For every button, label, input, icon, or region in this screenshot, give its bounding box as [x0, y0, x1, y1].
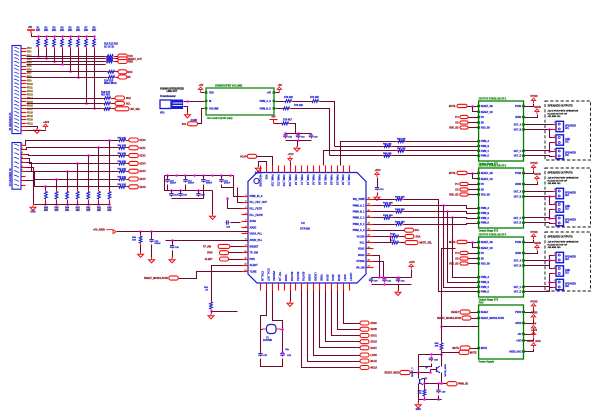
wire — [286, 140, 312, 142]
wire — [257, 157, 273, 166]
svg-text:R81 22R: R81 22R — [383, 143, 392, 145]
power +5V bar — [270, 117, 278, 124]
svg-text:10K: 10K — [107, 210, 112, 212]
svg-text:Output Stage ST3: Output Stage ST3 — [479, 299, 499, 302]
MCU pin 35 — [272, 166, 274, 173]
junction — [69, 70, 72, 73]
MCU pin 27 — [343, 284, 345, 291]
svg-text:PVDD: PVDD — [530, 230, 537, 234]
junction — [437, 398, 440, 401]
resistor R104 — [395, 223, 405, 226]
svg-text:100nF: 100nF — [154, 243, 161, 245]
svg-text:10K: 10K — [76, 210, 81, 212]
svg-text:100nF: 100nF — [224, 183, 231, 185]
port VDD_SD — [460, 262, 468, 265]
wire bus PWM — [341, 142, 479, 166]
MCU pin 7 — [242, 233, 249, 235]
svg-text:R100 22R: R100 22R — [395, 197, 405, 199]
MCU pin 13 — [242, 271, 249, 273]
speaker note box 2 — [545, 168, 591, 227]
pin PWM_D — [477, 222, 480, 224]
svg-text:PVDD: PVDD — [530, 94, 537, 98]
MCU pin 4 — [242, 214, 249, 216]
svg-text:LRCKR: LRCKR — [314, 272, 317, 281]
ground — [34, 128, 40, 133]
wire — [260, 330, 262, 353]
svg-text:PWM_B_O: PWM_B_O — [260, 108, 272, 110]
svg-text:PWM_D_1: PWM_D_1 — [353, 223, 365, 226]
svg-text:R53 10K: R53 10K — [118, 161, 127, 163]
wire OUT_B — [525, 129, 553, 131]
wire — [374, 256, 380, 278]
svg-text:PD12: PD12 — [27, 91, 34, 93]
wire — [27, 127, 38, 129]
MCU pin 12 — [242, 265, 249, 267]
wire — [27, 58, 105, 60]
capacitor C32 — [396, 278, 400, 283]
junction — [548, 259, 551, 262]
svg-text:XTAL_IN: XTAL_IN — [260, 271, 263, 281]
wire — [418, 373, 420, 379]
svg-text:STA328: STA328 — [300, 227, 310, 231]
svg-text:AVDD_PLL: AVDD_PLL — [250, 239, 263, 242]
wire — [424, 398, 426, 400]
svg-text:10K: 10K — [36, 30, 41, 32]
svg-text:BCLK: BCLK — [371, 361, 378, 363]
wire OUT_D — [525, 156, 553, 157]
svg-text:R51 10K: R51 10K — [118, 145, 127, 147]
port RXD — [118, 60, 128, 64]
resistor R44 — [118, 170, 128, 173]
MCU pin 21 — [307, 284, 309, 291]
svg-text:MUTE: MUTE — [452, 348, 459, 350]
wire — [98, 202, 100, 205]
pin OUT_B — [522, 264, 525, 266]
junction — [170, 189, 173, 192]
svg-text:AVDD: AVDD — [534, 172, 541, 176]
wire — [442, 301, 479, 327]
wire — [550, 209, 553, 211]
wire — [238, 188, 242, 203]
resistor R4 — [61, 37, 64, 50]
resistor R66 — [45, 190, 48, 202]
wire — [184, 107, 188, 113]
svg-text:RXD: RXD — [128, 62, 133, 64]
svg-text:+3V3: +3V3 — [516, 341, 522, 343]
junction — [45, 35, 48, 38]
junction — [69, 35, 72, 38]
wire — [281, 329, 283, 331]
svg-text:VDD_SD: VDD_SD — [449, 128, 459, 130]
capacitor C14 — [169, 193, 173, 197]
wire — [229, 259, 242, 261]
wire — [471, 348, 478, 350]
capacitor C36 — [436, 389, 440, 394]
port KEY0 — [129, 138, 139, 142]
speaker note box 1 — [545, 101, 591, 160]
resistor R2 — [45, 37, 48, 50]
svg-text:SDO1: SDO1 — [331, 274, 334, 281]
svg-text:J21 AND J31: J21 AND J31 — [548, 115, 562, 118]
pin — [205, 107, 208, 109]
resistor R101 — [383, 204, 393, 207]
svg-text:PVDD: PVDD — [515, 106, 522, 108]
capacitor C10 — [165, 179, 169, 183]
svg-text:R80 22R: R80 22R — [397, 139, 406, 141]
junction — [202, 174, 205, 177]
resistor R91 — [210, 301, 213, 312]
wire — [113, 103, 115, 105]
svg-text:1K 1K 1K: 1K 1K 1K — [104, 46, 115, 48]
svg-text:PWM_C: PWM_C — [481, 287, 490, 289]
pin RESET_CD — [477, 178, 480, 180]
resistor R1 — [37, 37, 40, 50]
wire rail — [165, 176, 213, 191]
MCU pin 38 — [290, 166, 292, 173]
pin VDD_SD — [477, 126, 480, 128]
svg-text:PWM_SD: PWM_SD — [458, 384, 469, 386]
svg-text:PWM_C: PWM_C — [481, 218, 490, 220]
junction — [61, 35, 64, 38]
wire — [45, 202, 47, 205]
junction — [166, 174, 169, 177]
svg-text:R56 10K: R56 10K — [118, 184, 127, 186]
svg-text:OUT_D: OUT_D — [514, 223, 522, 225]
wire — [550, 142, 553, 144]
svg-text:PWM_A2: PWM_A2 — [306, 175, 309, 186]
wire — [438, 396, 440, 400]
svg-text:10: 10 — [244, 251, 246, 253]
wire — [442, 249, 456, 301]
wire — [469, 189, 478, 191]
power AVDD_DAC — [527, 339, 541, 348]
svg-text:43: 43 — [368, 228, 370, 231]
svg-text:MUTE: MUTE — [449, 106, 456, 108]
wire — [469, 263, 478, 265]
svg-text:ALERT: ALERT — [250, 264, 259, 267]
svg-text:SPEAKER: SPEAKER — [565, 255, 576, 258]
junction — [184, 174, 187, 177]
svg-text:AGND: AGND — [255, 172, 262, 175]
wire PWM to amp2 — [405, 212, 479, 214]
wire — [419, 364, 432, 367]
wire — [469, 122, 478, 124]
wire — [166, 240, 249, 242]
svg-text:MUTE_MOD: MUTE_MOD — [445, 364, 447, 377]
svg-text:SDO0: SDO0 — [325, 274, 328, 281]
wire — [201, 92, 205, 94]
svg-text:VCAP: VCAP — [240, 155, 247, 158]
pin +5V — [522, 333, 525, 335]
power PVDD — [530, 300, 537, 309]
svg-text:MUTE: MUTE — [449, 242, 456, 244]
wire PWM to amp3 — [444, 206, 479, 288]
capacitor C28 — [280, 353, 284, 357]
svg-text:PWM_A: PWM_A — [481, 276, 490, 279]
svg-text:Output Stage ST2: Output Stage ST2 — [479, 230, 499, 233]
pin — [205, 91, 208, 93]
connector J21 — [553, 121, 564, 131]
svg-text:PLACE ON TOP OF: PLACE ON TOP OF — [548, 112, 568, 115]
wire — [411, 270, 413, 278]
svg-text:PWM_B1: PWM_B1 — [324, 175, 327, 186]
speaker note box 3 — [545, 232, 591, 291]
junction — [471, 105, 474, 108]
connector J23 — [553, 252, 564, 262]
wire — [473, 107, 478, 112]
svg-text:MUTE_SEL: MUTE_SEL — [420, 243, 433, 245]
svg-text:SD: SD — [481, 190, 485, 192]
svg-text:2: 2 — [245, 201, 246, 203]
svg-text:TLINE: TLINE — [250, 271, 257, 274]
port MUTE_SEL — [405, 241, 418, 245]
svg-text:R83 22R: R83 22R — [383, 153, 392, 155]
svg-text:100nF: 100nF — [188, 183, 195, 185]
svg-text:VSS: VSS — [265, 175, 268, 180]
port LRCK — [360, 353, 369, 357]
junction — [55, 178, 58, 181]
svg-text:LRCK: LRCK — [371, 355, 378, 357]
resistor R32 — [103, 107, 113, 110]
svg-text:+5V: +5V — [532, 322, 537, 326]
pin RESET — [477, 311, 480, 313]
capacitor C22 — [296, 134, 300, 139]
wire — [261, 359, 283, 367]
port TP_SW — [218, 244, 230, 248]
svg-text:RESET_AB: RESET_AB — [481, 172, 493, 175]
pin RESET_CD — [477, 111, 480, 113]
wire OUT_C — [525, 218, 553, 219]
resistor R12 — [105, 60, 116, 63]
wire — [273, 291, 283, 353]
junction — [471, 241, 474, 244]
svg-text:Power Supply: Power Supply — [479, 362, 495, 364]
wire — [468, 242, 478, 244]
ground — [374, 195, 380, 200]
wire — [26, 163, 118, 172]
svg-text:PU: PU — [455, 117, 459, 119]
wire — [332, 291, 361, 336]
svg-text:6: 6 — [245, 226, 246, 228]
port SCK — [118, 70, 127, 74]
wire — [140, 232, 142, 235]
ground — [208, 314, 214, 319]
svg-text:42: 42 — [368, 234, 370, 237]
svg-text:PU: PU — [481, 184, 485, 186]
svg-text:PWM_A: PWM_A — [481, 140, 490, 143]
port MUTE — [457, 104, 467, 107]
MCU pin 37 — [367, 267, 374, 269]
svg-text:24.576M: 24.576M — [263, 339, 272, 342]
junction — [77, 35, 80, 38]
wire — [94, 50, 96, 109]
resistor R7 — [85, 37, 88, 50]
svg-text:VDD3: VDD3 — [284, 274, 287, 281]
wire — [374, 205, 383, 207]
svg-text:10K: 10K — [65, 210, 70, 212]
port VDD_SD — [460, 126, 468, 129]
svg-text:+5V: +5V — [517, 334, 522, 336]
svg-text:MUTE: MUTE — [481, 348, 488, 350]
svg-text:VDD_SD: VDD_SD — [449, 264, 459, 266]
svg-text:RESET_AB: RESET_AB — [481, 105, 493, 108]
svg-text:PWM_B: PWM_B — [481, 213, 490, 215]
power +5V — [531, 322, 536, 331]
capacitor C18 — [226, 220, 230, 224]
wire — [418, 400, 420, 403]
wire — [374, 230, 405, 232]
wire — [525, 182, 538, 185]
pin OUT_C — [522, 286, 525, 288]
wire PWM to amp3 — [405, 200, 479, 292]
svg-text:SDA2: SDA2 — [358, 254, 365, 257]
ground — [395, 290, 401, 295]
MCU pin 37 — [284, 166, 286, 173]
junction — [548, 150, 551, 153]
wire — [77, 202, 79, 205]
svg-text:OUT_A: OUT_A — [514, 191, 522, 194]
pin RESET_CD — [477, 247, 480, 249]
connector J12 — [553, 202, 564, 212]
junction — [175, 174, 178, 177]
wire — [441, 355, 443, 367]
wire — [78, 50, 80, 78]
svg-text:PWM_B2: PWM_B2 — [329, 175, 332, 186]
svg-text:INT_SEL: INT_SEL — [131, 109, 141, 111]
svg-text:+5V: +5V — [199, 83, 204, 87]
svg-text:VDD_SD: VDD_SD — [481, 128, 491, 130]
wire — [234, 176, 242, 197]
wire — [442, 352, 460, 354]
pin OUT_B — [522, 195, 525, 197]
svg-text:+3V3: +3V3 — [531, 328, 538, 332]
capacitor C19 — [375, 187, 379, 191]
MCU pin 41 — [367, 242, 374, 244]
svg-text:R11 R12 R13: R11 R12 R13 — [104, 44, 119, 46]
wire — [27, 77, 107, 79]
wire — [473, 174, 478, 179]
MCU pin 36 — [278, 166, 280, 173]
pin — [273, 91, 276, 93]
svg-text:46: 46 — [368, 209, 370, 212]
ground — [415, 403, 421, 412]
svg-text:10K: 10K — [44, 210, 49, 212]
svg-text:VCC33: VCC33 — [357, 235, 366, 238]
MCU pin 41 — [307, 166, 309, 173]
wire pull-up rail — [32, 34, 95, 37]
svg-text:SDA1: SDA1 — [358, 248, 365, 251]
svg-text:PWM_B0: PWM_B0 — [318, 175, 321, 186]
wire OUT_D — [525, 223, 553, 224]
svg-text:+5V_AVDD: +5V_AVDD — [93, 229, 105, 232]
junction — [423, 382, 426, 385]
MCU pin 5 — [242, 221, 249, 223]
resistor R46 — [118, 185, 128, 188]
svg-text:PWM_C0: PWM_C0 — [341, 175, 344, 186]
svg-text:R70 22R: R70 22R — [284, 97, 293, 99]
junction — [61, 63, 64, 66]
resistor R81 — [383, 145, 393, 148]
wire — [549, 274, 551, 283]
MCU pin 39 — [295, 166, 297, 173]
svg-text:VOL: VOL — [182, 124, 187, 126]
svg-text:KEY1: KEY1 — [140, 148, 147, 150]
capacitor C35 — [429, 357, 433, 362]
svg-text:+1V2: +1V2 — [287, 152, 294, 156]
svg-text:47: 47 — [368, 203, 370, 206]
wire — [56, 202, 58, 205]
MCU pin 22 — [313, 284, 315, 291]
svg-text:KEY5: KEY5 — [140, 179, 147, 181]
wire — [344, 291, 361, 324]
resistor R31 — [103, 102, 113, 105]
wire — [26, 159, 118, 164]
svg-text:R101 22R: R101 22R — [383, 203, 393, 205]
svg-text:PWM_A_2: PWM_A_2 — [353, 229, 365, 232]
capacitor C12 — [201, 179, 205, 183]
svg-text:KEY2: KEY2 — [140, 156, 147, 158]
wire — [128, 147, 129, 149]
resistor R8 — [93, 37, 96, 50]
svg-text:R82 22R: R82 22R — [397, 148, 406, 150]
wire — [128, 179, 129, 181]
junction — [45, 57, 48, 60]
svg-text:PLACE ON TOP OF: PLACE ON TOP OF — [548, 243, 568, 246]
port KEY1 — [129, 146, 139, 150]
svg-text:100nF: 100nF — [206, 183, 213, 185]
svg-text:PD21: PD21 — [27, 123, 34, 125]
MCU pin 48 — [367, 199, 374, 201]
resistor R72 — [282, 107, 292, 110]
ground — [149, 258, 155, 263]
wire — [27, 98, 103, 100]
connector J11 — [553, 135, 564, 145]
svg-text:PU: PU — [481, 253, 485, 255]
MCU pin 8 — [242, 240, 249, 242]
pin RESET_MODULATOR — [477, 317, 480, 319]
power PVDD — [530, 230, 537, 239]
svg-text:R52 10K: R52 10K — [118, 153, 127, 155]
ground — [210, 214, 216, 219]
wire — [314, 291, 361, 356]
junction — [97, 203, 100, 206]
svg-text:R75 4K7: R75 4K7 — [283, 119, 293, 122]
svg-text:+5V: +5V — [271, 117, 276, 119]
wire — [468, 173, 478, 175]
svg-text:SDO2: SDO2 — [371, 342, 378, 344]
junction — [55, 203, 58, 206]
MCU pin 26 — [337, 284, 339, 291]
port MUTE — [460, 346, 470, 350]
pin PVDD — [522, 105, 525, 107]
MCU pin 44 — [367, 224, 374, 226]
svg-text:PITH: PITH — [250, 258, 256, 261]
wire — [228, 199, 242, 209]
wire — [292, 109, 330, 156]
connector J13 — [553, 266, 564, 276]
svg-text:RESET_T: RESET_T — [412, 367, 414, 377]
wire — [116, 56, 118, 58]
MCU pin 25 — [331, 284, 333, 291]
svg-text:100nF: 100nF — [170, 183, 177, 185]
pin AVDD — [522, 116, 525, 118]
svg-text:LINE: LINE — [565, 270, 571, 272]
MCU pin 42 — [313, 166, 315, 173]
svg-text:10K: 10K — [92, 30, 97, 32]
svg-text:KEY3: KEY3 — [140, 163, 147, 165]
MCU pin 1 — [242, 196, 249, 198]
resistor R102 — [395, 210, 405, 213]
